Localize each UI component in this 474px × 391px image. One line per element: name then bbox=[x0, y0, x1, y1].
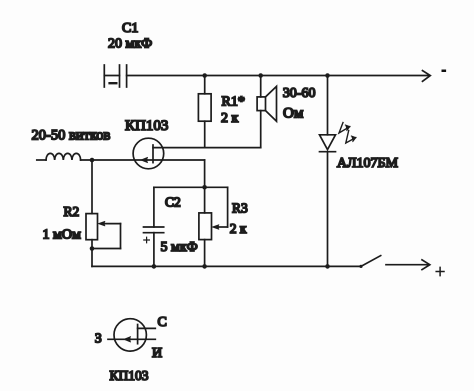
node junction bottom C2 bbox=[152, 264, 157, 269]
potentiometer R3 bbox=[199, 187, 228, 266]
pinout diagram transistor KP103 bbox=[108, 319, 155, 351]
switch SA1 bbox=[359, 256, 429, 270]
wire gate and source line bbox=[81, 159, 205, 161]
svg-text:R1*: R1* bbox=[222, 95, 245, 110]
svg-text:2 к: 2 к bbox=[230, 221, 247, 236]
svg-text:Ом: Ом bbox=[283, 106, 304, 122]
svg-text:АЛ107БМ: АЛ107БМ bbox=[337, 156, 399, 171]
svg-text:30-60: 30-60 bbox=[283, 86, 316, 101]
svg-text:КП103: КП103 bbox=[110, 368, 149, 383]
svg-text:2 к: 2 к bbox=[221, 111, 239, 126]
svg-text:R3: R3 bbox=[232, 200, 248, 215]
svg-text:R2: R2 bbox=[64, 204, 80, 219]
resistor R1 bbox=[198, 76, 211, 148]
minus sign terminal label bbox=[442, 70, 447, 73]
arrowhead minus terminal bbox=[423, 71, 431, 82]
node junction top rail at speaker bbox=[258, 73, 263, 78]
plus terminal label bbox=[436, 267, 444, 275]
speaker BA1 bbox=[257, 76, 276, 148]
wire source vertical bbox=[204, 160, 206, 187]
svg-text:И: И bbox=[152, 346, 162, 361]
LED VD1 bbox=[320, 76, 336, 267]
node junction top rail at R1 bbox=[202, 73, 207, 78]
svg-text:C2: C2 bbox=[165, 195, 181, 210]
svg-text:1 мОм: 1 мОм bbox=[43, 228, 81, 243]
wire drain line bbox=[153, 147, 261, 149]
wire top rail bbox=[127, 75, 429, 77]
node junction bottom R3 bbox=[202, 264, 207, 269]
node junction bottom LED bbox=[325, 264, 330, 269]
svg-text:20-50 витков: 20-50 витков bbox=[32, 127, 111, 143]
node junction source node bbox=[202, 185, 207, 190]
wire node line bbox=[154, 186, 228, 188]
wire bottom rail bbox=[92, 265, 361, 267]
inductor L1 bbox=[37, 153, 81, 160]
transistor VT1 KP103 bbox=[133, 138, 164, 169]
svg-text:5 мкФ: 5 мкФ bbox=[161, 240, 198, 255]
svg-text:З: З bbox=[95, 332, 102, 347]
svg-text:С: С bbox=[158, 315, 167, 330]
node junction gate bbox=[90, 158, 95, 163]
capacitor C2 bbox=[144, 187, 164, 266]
svg-text:C1: C1 bbox=[122, 21, 138, 36]
svg-text:20 мкФ: 20 мкФ bbox=[108, 37, 152, 52]
node junction top rail at LED bbox=[325, 73, 330, 78]
svg-text:КП103: КП103 bbox=[125, 118, 168, 134]
LED emission arrows bbox=[339, 123, 356, 144]
potentiometer R2 bbox=[86, 214, 121, 267]
wire R2 top lead bbox=[91, 160, 93, 214]
capacitor C1 bbox=[104, 65, 126, 87]
